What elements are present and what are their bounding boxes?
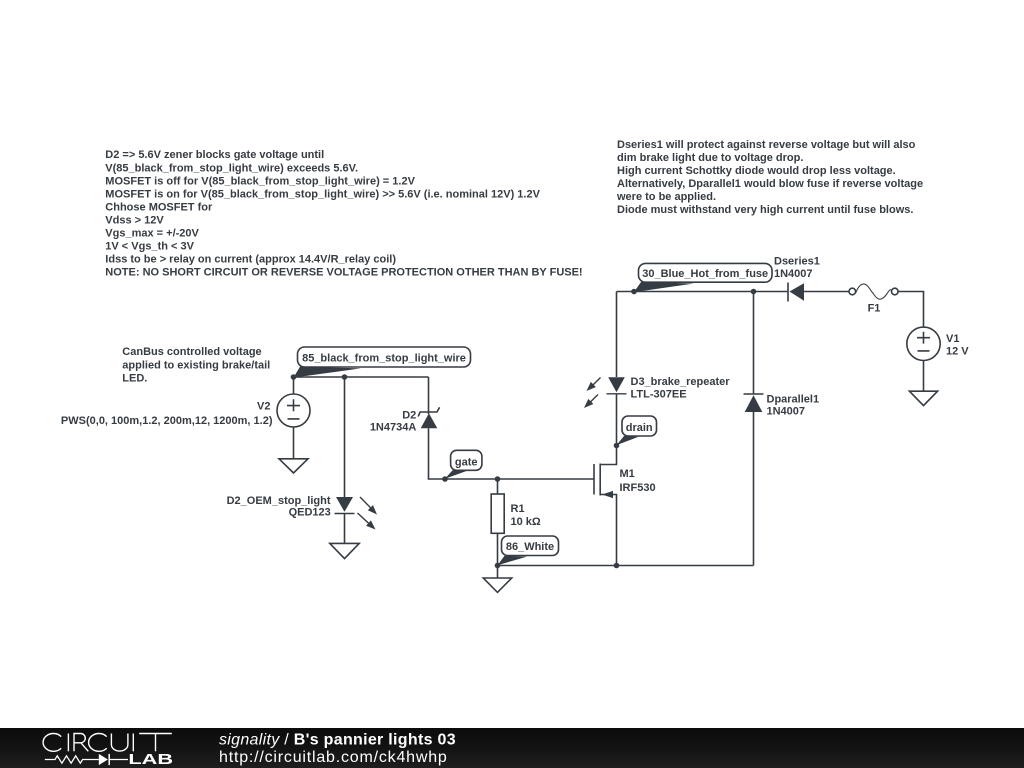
node flag drain bbox=[617, 416, 657, 445]
svg-text:MOSFET is off for V(85_black_f: MOSFET is off for V(85_black_from_stop_l… bbox=[105, 175, 415, 187]
junction mosfet source bottom bbox=[614, 563, 620, 569]
svg-text:1N4007: 1N4007 bbox=[774, 268, 813, 280]
svg-text:85_black_from_stop_light_wire: 85_black_from_stop_light_wire bbox=[302, 353, 466, 365]
svg-text:PWS(0,0, 100m,1.2, 200m,12, 12: PWS(0,0, 100m,1.2, 200m,12, 1200m, 1.2) bbox=[61, 415, 273, 427]
voltage source V1 12V bbox=[907, 327, 940, 360]
svg-text:V(85_black_from_stop_light_wir: V(85_black_from_stop_light_wire) exceeds… bbox=[105, 162, 358, 174]
svg-text:1N4007: 1N4007 bbox=[767, 406, 806, 418]
junction R1 top bbox=[495, 476, 501, 482]
svg-text:drain: drain bbox=[626, 422, 653, 434]
junction Dparallel top bbox=[751, 289, 757, 295]
junction gate flag node bbox=[442, 476, 448, 482]
wire D3 branch upper bbox=[616, 292, 618, 378]
svg-text:High current Schottky diode wo: High current Schottky diode would drop l… bbox=[617, 165, 896, 177]
logo resistor-diode glyph bbox=[45, 754, 128, 765]
wire D3 to mosfet drain bbox=[600, 394, 616, 465]
voltage source V2 bbox=[277, 394, 310, 427]
wire diode to fuse bbox=[804, 291, 849, 293]
svg-text:D2: D2 bbox=[402, 409, 416, 421]
svg-text:Idss to be > relay on current: Idss to be > relay on current (approx 14… bbox=[105, 254, 396, 266]
wire ground stem 86_White bbox=[497, 566, 499, 579]
ground below 86_White bbox=[483, 578, 511, 592]
junction 30_Blue node bbox=[631, 289, 637, 295]
resistor R1 bbox=[491, 494, 504, 533]
svg-text:D3_brake_repeater: D3_brake_repeater bbox=[631, 376, 731, 388]
svg-text:http://circuitlab.com/ck4hwhp: http://circuitlab.com/ck4hwhp bbox=[219, 749, 448, 766]
svg-text:R1: R1 bbox=[511, 503, 525, 515]
note block left bbox=[105, 149, 582, 279]
junction drain node bbox=[614, 443, 620, 449]
svg-text:LTL-307EE: LTL-307EE bbox=[631, 388, 687, 400]
svg-text:Vdss > 12V: Vdss > 12V bbox=[105, 215, 164, 227]
svg-text:Dseries1: Dseries1 bbox=[774, 256, 820, 268]
svg-text:1V < Vgs_th < 3V: 1V < Vgs_th < 3V bbox=[105, 241, 194, 253]
footer bar bbox=[0, 728, 1024, 768]
wire R1 top lead bbox=[497, 479, 499, 494]
svg-text:Alternatively, Dparallel1 woul: Alternatively, Dparallel1 would blow fus… bbox=[617, 178, 923, 190]
wire Dparallel upper bbox=[753, 292, 755, 395]
note block canbus bbox=[122, 346, 270, 384]
node flag gate bbox=[445, 450, 482, 479]
svg-text:Diode must withstand very high: Diode must withstand very high current u… bbox=[617, 204, 913, 216]
fuse F1 bbox=[849, 284, 898, 299]
wire OEM led bottom lead bbox=[344, 514, 346, 544]
led D3_brake_repeater LTL-307EE bbox=[584, 377, 627, 408]
svg-text:QED123: QED123 bbox=[289, 507, 331, 519]
wire OEM led top lead bbox=[344, 377, 346, 497]
svg-text:Dseries1 will protect against: Dseries1 will protect against reverse vo… bbox=[617, 139, 916, 151]
svg-text:M1: M1 bbox=[620, 468, 635, 480]
svg-text:MOSFET is on for V(85_black_fr: MOSFET is on for V(85_black_from_stop_li… bbox=[105, 188, 540, 200]
ground below QED123 bbox=[330, 543, 359, 558]
zener diode D2 1N4734A bbox=[418, 407, 439, 428]
wire bottom net 86_White bbox=[498, 565, 754, 567]
svg-text:V1: V1 bbox=[946, 333, 959, 345]
svg-text:LAB: LAB bbox=[128, 750, 173, 767]
svg-text:dim brake light due to voltage: dim brake light due to voltage drop. bbox=[617, 152, 803, 164]
svg-text:CanBus controlled voltage: CanBus controlled voltage bbox=[122, 346, 261, 358]
mosfet M1 IRF530 bbox=[594, 464, 613, 499]
svg-text:Dparallel1: Dparallel1 bbox=[767, 393, 820, 405]
wire V1 bottom lead bbox=[923, 361, 925, 392]
junction 86_White node bbox=[495, 563, 501, 569]
ground below V1 bbox=[909, 391, 937, 405]
note block right bbox=[616, 139, 923, 216]
svg-text:V2: V2 bbox=[257, 401, 270, 413]
svg-text:NOTE: NO SHORT CIRCUIT OR REVE: NOTE: NO SHORT CIRCUIT OR REVERSE VOLTAG… bbox=[105, 267, 582, 279]
logo circuit wordmark bbox=[43, 734, 172, 752]
junction node 85_black at V2 bbox=[291, 374, 297, 380]
svg-text:D2_OEM_stop_light: D2_OEM_stop_light bbox=[227, 495, 331, 507]
junction OEM led branch bbox=[342, 374, 348, 380]
wire mosfet source lead bbox=[600, 495, 616, 566]
svg-text:LED.: LED. bbox=[122, 372, 147, 384]
wire V2 bottom lead bbox=[293, 427, 295, 459]
svg-text:D2 => 5.6V zener blocks gate v: D2 => 5.6V zener blocks gate voltage unt… bbox=[105, 149, 324, 161]
wire 85_black horizontal bbox=[294, 376, 429, 378]
wire top net 30_Blue bbox=[617, 291, 789, 293]
node flag 85_black_from_stop_light_wire bbox=[294, 347, 471, 378]
ground below V2 bbox=[279, 459, 308, 473]
svg-text:12 V: 12 V bbox=[946, 346, 969, 358]
wire zener bottom to gate bbox=[429, 428, 595, 479]
svg-text:Chhose MOSFET for: Chhose MOSFET for bbox=[105, 201, 213, 213]
svg-text:IRF530: IRF530 bbox=[620, 482, 656, 494]
svg-text:1N4734A: 1N4734A bbox=[370, 421, 417, 433]
wire zener top lead bbox=[428, 377, 430, 414]
svg-text:applied to existing brake/tail: applied to existing brake/tail bbox=[122, 359, 270, 371]
wire Dparallel lower bbox=[753, 412, 755, 566]
svg-text:86_White: 86_White bbox=[506, 541, 554, 553]
svg-text:10 kΩ: 10 kΩ bbox=[511, 516, 541, 528]
svg-text:F1: F1 bbox=[868, 302, 881, 314]
wire V2 top lead bbox=[293, 377, 295, 394]
node flag 86_White bbox=[498, 536, 559, 565]
diode Dseries1 1N4007 bbox=[788, 283, 804, 302]
svg-text:signality / B's pannier lights: signality / B's pannier lights 03 bbox=[219, 732, 456, 749]
diode Dparallel1 1N4007 bbox=[744, 394, 764, 412]
wire fuse to V1 bbox=[898, 292, 923, 328]
svg-text:30_Blue_Hot_from_fuse: 30_Blue_Hot_from_fuse bbox=[642, 268, 768, 280]
svg-text:gate: gate bbox=[455, 456, 478, 468]
led D2_OEM_stop_light QED123 bbox=[335, 497, 378, 530]
wire R1 bottom lead bbox=[497, 533, 499, 565]
node flag 30_Blue_Hot_from_fuse bbox=[634, 263, 772, 292]
svg-text:were to be applied.: were to be applied. bbox=[616, 191, 716, 203]
svg-text:Vgs_max = +/-20V: Vgs_max = +/-20V bbox=[105, 228, 199, 240]
